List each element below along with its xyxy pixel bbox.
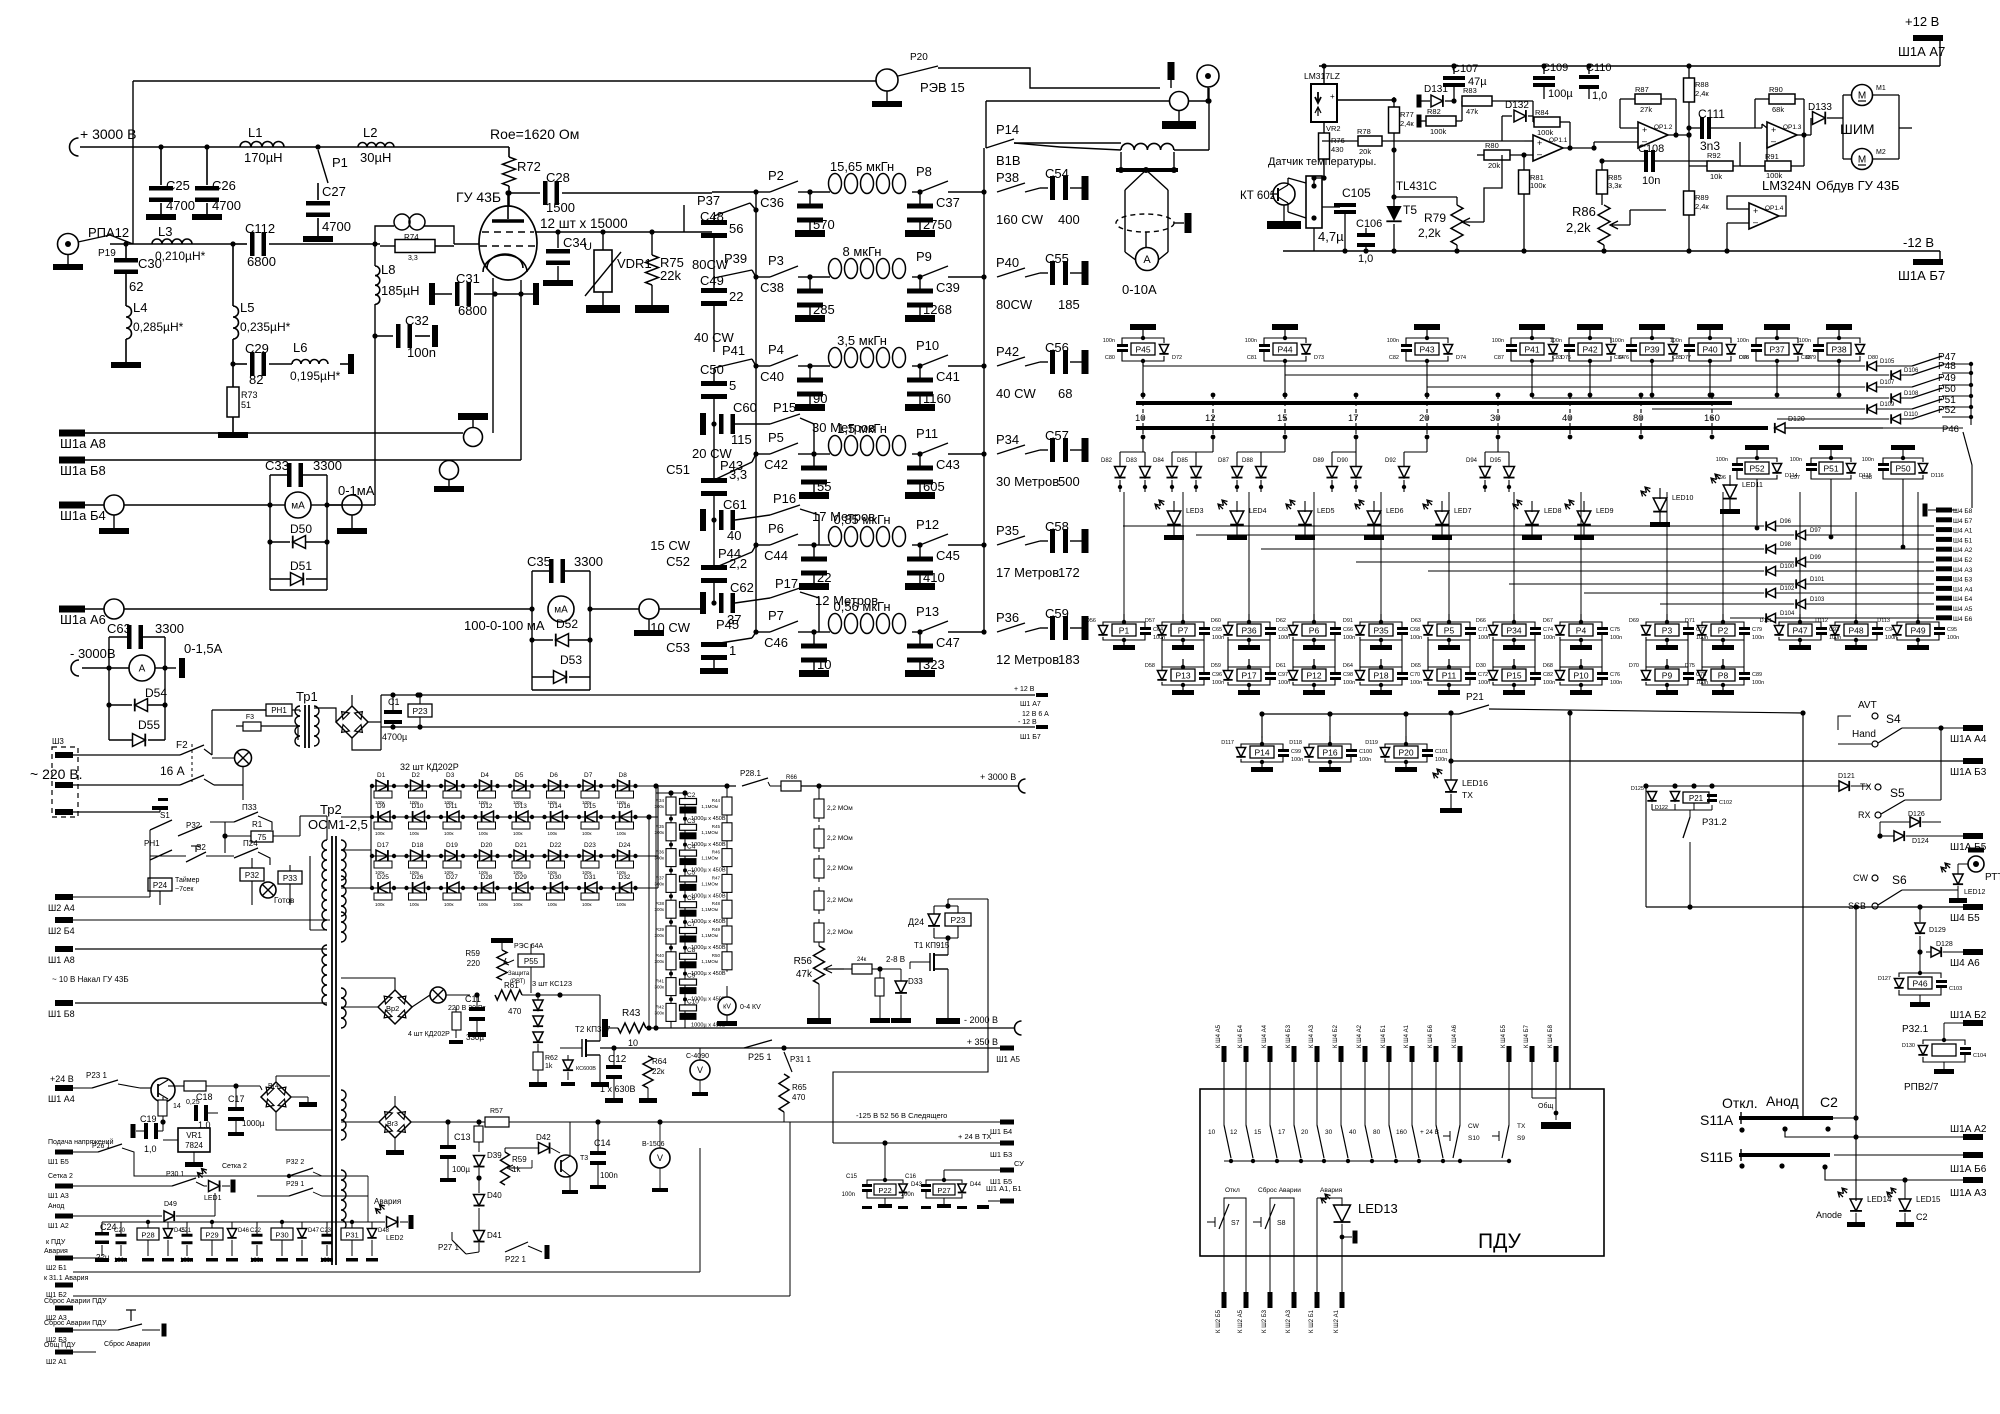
svg-text:C51: C51 (666, 462, 690, 477)
diode D47 (297, 1229, 306, 1238)
connector К Ш4 А3 (1315, 1046, 1320, 1062)
svg-text:C86: C86 (1739, 355, 1749, 361)
switch band 20 (1316, 1062, 1318, 1125)
switch S10 CW (1459, 1062, 1461, 1125)
capacitor C54 (1040, 187, 1048, 189)
svg-text:D91: D91 (1343, 618, 1353, 624)
diode D24 (618, 850, 630, 862)
svg-text:17: 17 (1348, 413, 1359, 424)
svg-text:Датчик температуры.: Датчик температуры. (1268, 156, 1376, 168)
svg-text:Ш1 А1, Б1: Ш1 А1, Б1 (986, 1184, 1022, 1193)
svg-text:C65: C65 (1212, 627, 1222, 633)
svg-text:C89: C89 (1752, 672, 1762, 678)
svg-text:C74: C74 (1543, 627, 1553, 633)
wire band row 2 (756, 276, 770, 278)
svg-text:100n: 100n (1543, 680, 1555, 686)
svg-text:P11: P11 (916, 426, 938, 441)
relay coil P23 anode (945, 913, 971, 926)
svg-text:LED7: LED7 (1454, 508, 1472, 515)
svg-text:СУ: СУ (1014, 1159, 1024, 1168)
relay coil P30 (271, 1228, 293, 1240)
svg-text:С23: С23 (320, 1228, 332, 1234)
svg-text:D105: D105 (1880, 359, 1895, 365)
svg-text:100к: 100к (1530, 181, 1547, 190)
svg-text:R72: R72 (517, 159, 541, 174)
svg-text:К Ш2 Б5: К Ш2 Б5 (1216, 1309, 1222, 1333)
svg-text:300к: 300к (655, 959, 665, 964)
svg-text:0,195µН*: 0,195µН* (290, 369, 341, 383)
svg-text:C79: C79 (1752, 627, 1762, 633)
svg-text:Авария: Авария (374, 1197, 401, 1206)
resistor equalizing D32 (616, 893, 634, 900)
relay РЭС 64А (491, 938, 513, 943)
diode D19 (445, 850, 457, 862)
svg-text:20: 20 (1301, 1129, 1309, 1136)
capacitor C47 (919, 632, 921, 646)
switch S9 TX (1508, 1062, 1510, 1125)
svg-text:20k: 20k (1359, 147, 1371, 156)
svg-text:В1В: В1В (996, 153, 1021, 168)
capacitor C46 (813, 632, 815, 646)
svg-text:D87: D87 (1218, 458, 1230, 464)
resistor bleeder R35 300к (666, 823, 676, 841)
feedthrough capacitor antenna (1170, 92, 1189, 111)
resistor R57 24k (852, 964, 872, 974)
resistor equalizing D16 (616, 822, 634, 829)
resistor equalizing D31 (581, 893, 599, 900)
svg-text:Откл: Откл (1225, 1187, 1240, 1194)
svg-text:R42: R42 (656, 1004, 665, 1009)
connector К Ш2 А1 (1340, 1292, 1345, 1308)
svg-text:ГУ 43Б: ГУ 43Б (456, 189, 501, 205)
svg-text:56: 56 (729, 221, 743, 236)
lamp Готов (260, 882, 276, 898)
relay coil P14 (1261, 736, 1263, 744)
resistor bleeder R39 300к (666, 926, 676, 944)
svg-text:C95: C95 (1947, 627, 1957, 633)
svg-text:C97: C97 (1278, 672, 1288, 678)
svg-text:100к: 100к (479, 831, 489, 836)
svg-text:-125 В 52 56 В Следящего: -125 В 52 56 В Следящего (856, 1111, 947, 1120)
svg-text:P21: P21 (1689, 794, 1704, 803)
svg-text:14: 14 (173, 1103, 181, 1110)
svg-text:ОСМ1-2,5: ОСМ1-2,5 (308, 817, 368, 832)
svg-text:470: 470 (792, 1093, 806, 1102)
svg-text:470: 470 (508, 1007, 522, 1016)
capacitor C51 (713, 424, 715, 480)
svg-text:30: 30 (1325, 1129, 1333, 1136)
svg-text:D59: D59 (1211, 663, 1221, 669)
svg-text:R59: R59 (465, 949, 480, 958)
svg-text:30: 30 (1490, 413, 1501, 424)
svg-text:P35: P35 (1373, 626, 1388, 636)
diode D84 (1171, 452, 1173, 466)
svg-text:D84: D84 (1153, 458, 1165, 464)
diode D96 (1123, 525, 1764, 527)
svg-text:300к: 300к (655, 1010, 665, 1015)
wire +12V top rail (1319, 65, 1940, 67)
svg-text:К Ш4 Б3: К Ш4 Б3 (1286, 1024, 1292, 1048)
wire band row 1 (756, 191, 770, 193)
rectifier bridge Вр3 (379, 1106, 411, 1138)
resistor R82 100k (1417, 115, 1422, 128)
svg-text:100к: 100к (444, 831, 454, 836)
svg-text:12 шт х 15000: 12 шт х 15000 (540, 216, 628, 231)
svg-text:51: 51 (241, 400, 251, 410)
diode D5 (514, 780, 526, 792)
connector Ш1а Б4 (59, 502, 85, 509)
svg-text:1000µ х 450В: 1000µ х 450В (691, 842, 726, 848)
diode D85 (1195, 452, 1197, 466)
svg-text:Ш1а Б8: Ш1а Б8 (60, 463, 106, 478)
svg-text:C44: C44 (764, 548, 788, 563)
svg-text:Ш3: Ш3 (52, 737, 64, 746)
thermal sensor block (1306, 176, 1322, 228)
svg-text:2750: 2750 (923, 217, 952, 232)
svg-text:100n: 100n (1291, 757, 1303, 763)
svg-text:100n: 100n (1550, 338, 1562, 344)
svg-text:D100: D100 (1780, 564, 1795, 570)
svg-text:100n: 100n (1492, 338, 1504, 344)
svg-text:–: – (1771, 136, 1776, 146)
svg-text:2,2k: 2,2k (1566, 220, 1591, 235)
svg-text:P45: P45 (1135, 345, 1150, 355)
svg-text:1k: 1k (545, 1063, 553, 1070)
svg-text:CW: CW (1468, 1123, 1480, 1130)
svg-text:D125: D125 (1631, 786, 1644, 792)
svg-text:C26: C26 (212, 178, 236, 193)
svg-text:Ш1 А2: Ш1 А2 (48, 1223, 69, 1230)
svg-text:P52: P52 (1938, 405, 1956, 416)
svg-text:C87: C87 (1494, 355, 1504, 361)
svg-text:R50: R50 (712, 953, 721, 958)
wire Авария long (73, 1271, 700, 1273)
svg-text:R77: R77 (1400, 110, 1414, 119)
diode D46 (227, 1229, 236, 1238)
diode D7 (583, 780, 595, 792)
svg-text:D132: D132 (1505, 100, 1529, 111)
svg-text:C75: C75 (1610, 627, 1620, 633)
diode group col 1356 (1355, 437, 1357, 452)
relay coil P1 (1123, 614, 1125, 622)
svg-text:4 шт КД202Р: 4 шт КД202Р (408, 1031, 450, 1038)
svg-text:C60: C60 (733, 400, 757, 415)
svg-text:C54: C54 (1045, 166, 1069, 181)
svg-text:185: 185 (1058, 297, 1080, 312)
op-amp OP1.3 (1767, 122, 1797, 148)
diode D16 (620, 811, 632, 823)
switch band 80 (1388, 1062, 1390, 1125)
svg-text:D70: D70 (1629, 663, 1639, 669)
svg-text:L6: L6 (293, 340, 307, 355)
svg-text:80: 80 (1373, 1129, 1381, 1136)
svg-text:C52: C52 (666, 554, 690, 569)
wires to motors (1842, 95, 1844, 118)
connector Ш4 Б2 (1936, 557, 1952, 562)
diode D15 (585, 811, 597, 823)
svg-text:1000µ х 450В: 1000µ х 450В (691, 971, 726, 977)
svg-text:2,2: 2,2 (729, 556, 747, 571)
relay coil P20 (1405, 736, 1407, 744)
svg-text:Ш1 Б5: Ш1 Б5 (48, 1159, 69, 1166)
svg-text:Ш1 А5: Ш1 А5 (996, 1055, 1020, 1064)
relay coil P29 (201, 1228, 223, 1240)
capacitor C31 (429, 283, 435, 305)
resistor R60 (452, 1012, 461, 1030)
svg-text:R73: R73 (241, 390, 258, 400)
svg-text:L5: L5 (240, 300, 254, 315)
svg-text:100µ: 100µ (1548, 88, 1573, 100)
connector Ш1А А2 (1963, 1134, 1983, 1140)
motor M2 (1852, 149, 1873, 170)
svg-text:P9: P9 (916, 249, 932, 264)
diode D30 (551, 882, 563, 894)
svg-text:16 А: 16 А (160, 764, 185, 778)
capacitor C40 (809, 366, 811, 380)
diode D22 (549, 850, 561, 862)
svg-text:C72: C72 (1478, 672, 1488, 678)
svg-text:1,1МОм: 1,1МОм (701, 881, 718, 886)
svg-text:100n: 100n (901, 1192, 914, 1198)
motor M1 (1852, 85, 1873, 106)
svg-text:P17: P17 (775, 576, 798, 591)
svg-text:D111: D111 (1760, 618, 1772, 624)
svg-text:P8: P8 (1718, 671, 1729, 681)
relay coil P4 (1580, 614, 1582, 622)
svg-text:17 Метров: 17 Метров (996, 565, 1059, 580)
resistor R78 20k (1322, 140, 1359, 142)
wire protection bus (102, 1221, 385, 1223)
svg-text:LM324N: LM324N (1762, 178, 1811, 193)
svg-text:–: – (1753, 217, 1758, 227)
svg-text:P36: P36 (996, 610, 1019, 625)
svg-text:R64: R64 (652, 1057, 667, 1066)
ground mains (73, 811, 160, 813)
diode D17 (376, 850, 388, 862)
svg-text:P52: P52 (1749, 464, 1764, 474)
svg-text:80: 80 (1633, 413, 1644, 424)
op-amp OP1.1 (1533, 135, 1563, 161)
svg-text:P16: P16 (773, 491, 796, 506)
svg-text:Ш4 А6: Ш4 А6 (1950, 958, 1980, 969)
inductor L6 (269, 363, 292, 365)
connector Ш1А А3 (1963, 1177, 1983, 1183)
svg-text:D80: D80 (1868, 355, 1878, 361)
resistor R84 100k (1534, 117, 1560, 127)
ground bottom-left (1283, 205, 1285, 221)
svg-text:C13: C13 (454, 1132, 471, 1142)
relay coil P5 (1448, 614, 1450, 622)
svg-text:LED1: LED1 (204, 1195, 222, 1202)
svg-text:100n: 100n (1799, 338, 1811, 344)
svg-text:D62: D62 (1276, 618, 1286, 624)
relay coil P47 (1799, 614, 1801, 622)
wire 24V rail top (381, 694, 1035, 696)
svg-text:РЭС 64А: РЭС 64А (514, 943, 543, 950)
svg-text:115: 115 (731, 432, 752, 447)
svg-text:P29: P29 (205, 1231, 218, 1240)
capacitor C45 (919, 545, 921, 559)
capacitor C42 (813, 454, 815, 468)
svg-text:P11: P11 (1442, 671, 1457, 681)
relay coil P13 (1182, 659, 1184, 667)
svg-text:C46: C46 (764, 635, 788, 650)
svg-text:К Ш4 А6: К Ш4 А6 (1452, 1024, 1458, 1048)
wire band row 3 (756, 365, 770, 367)
svg-text:D89: D89 (1313, 458, 1325, 464)
svg-text:0,285µН*: 0,285µН* (133, 320, 184, 334)
svg-text:F2: F2 (176, 740, 188, 751)
svg-text:P5: P5 (1444, 626, 1455, 636)
resistor R83 47k (1462, 96, 1492, 106)
svg-text:2,4к: 2,4к (1695, 89, 1709, 98)
svg-text:D71: D71 (1685, 618, 1695, 624)
diode D28 (482, 882, 494, 894)
wire Ш1А Б3 (1451, 760, 1964, 762)
svg-text:D117: D117 (1221, 740, 1234, 746)
connector К Ш2 Б1 (1315, 1292, 1320, 1308)
resistor equalizing D8 (616, 791, 634, 798)
svg-text:C35: C35 (527, 554, 551, 569)
svg-text:P48: P48 (1848, 626, 1863, 636)
svg-text:P50: P50 (1895, 464, 1910, 474)
svg-text:D119: D119 (1365, 740, 1378, 746)
svg-text:Ш2 А1: Ш2 А1 (46, 1359, 67, 1366)
connector Ш1а А6 (59, 606, 85, 613)
svg-text:CW: CW (1853, 873, 1868, 883)
svg-text:100k: 100k (1430, 127, 1447, 136)
svg-text:47k: 47k (1466, 107, 1478, 116)
bus right filter (983, 148, 985, 632)
varistor VDR1 (602, 232, 604, 250)
svg-text:К Ш4 Б1: К Ш4 Б1 (1381, 1024, 1387, 1048)
diode D11 (447, 811, 459, 823)
connector К Ш4 А6 (1458, 1046, 1463, 1062)
svg-text:кV: кV (723, 1003, 731, 1010)
diode group col 1213 (1212, 437, 1214, 452)
svg-text:1 х 630В: 1 х 630В (600, 1084, 636, 1094)
resistor R52 2.2МОм (814, 891, 824, 910)
svg-text:C40: C40 (760, 369, 784, 384)
svg-text:1268: 1268 (923, 302, 952, 317)
LED14 (1850, 1199, 1862, 1211)
svg-text:P23: P23 (412, 706, 427, 716)
wire feed P49 (1427, 386, 1865, 388)
svg-text:1,1МОм: 1,1МОм (701, 933, 718, 938)
resistor equalizing D10 (409, 822, 427, 829)
svg-text:100к: 100к (548, 902, 558, 907)
svg-text:P12: P12 (1306, 671, 1321, 681)
relay coil P10 (1580, 659, 1582, 667)
capacitor C62 (700, 592, 706, 614)
svg-text:R38: R38 (656, 901, 665, 906)
svg-text:D56: D56 (1086, 618, 1096, 624)
svg-text:1,0: 1,0 (144, 1144, 157, 1154)
svg-text:V: V (697, 1065, 703, 1075)
svg-text:1500: 1500 (546, 200, 575, 215)
svg-text:С21: С21 (180, 1228, 192, 1234)
svg-text:D25: D25 (377, 874, 389, 881)
svg-text:LED13: LED13 (1358, 1201, 1398, 1216)
svg-text:-12 В: -12 В (1903, 235, 1934, 250)
svg-text:Ш1а А8: Ш1а А8 (60, 436, 106, 451)
svg-text:C61: C61 (723, 497, 747, 512)
relay contact P11 (917, 451, 922, 456)
svg-text:P23: P23 (950, 915, 965, 925)
capacitor C60 (700, 413, 706, 435)
switch band + 24 В (1435, 1062, 1437, 1125)
svg-text:+ 24 В ТХ: + 24 В ТХ (958, 1132, 992, 1141)
resistor R57 (485, 1117, 509, 1127)
svg-text:D55: D55 (138, 718, 160, 732)
grounds regulator (818, 984, 820, 1018)
svg-text:R83: R83 (1463, 86, 1477, 95)
resistor equalizing D22 (547, 861, 565, 868)
diode D27 (447, 882, 459, 894)
svg-text:Br4: Br4 (268, 1083, 279, 1090)
svg-text:P30 1: P30 1 (166, 1171, 184, 1178)
svg-text:605: 605 (923, 479, 945, 494)
svg-text:D40: D40 (487, 1191, 502, 1200)
svg-text:P6: P6 (1309, 626, 1320, 636)
svg-text:P7: P7 (768, 608, 784, 623)
svg-text:D28: D28 (481, 874, 493, 881)
svg-text:В-1506: В-1506 (642, 1141, 665, 1148)
svg-text:D98: D98 (1780, 542, 1792, 548)
svg-text:C45: C45 (936, 548, 960, 563)
wire +350V (600, 1047, 1000, 1049)
svg-text:к ПДУ: к ПДУ (46, 1239, 66, 1246)
diode D18 (411, 850, 423, 862)
svg-text:P55: P55 (524, 957, 539, 966)
svg-text:R45: R45 (712, 824, 721, 829)
connector Ш4 А6 (1963, 949, 1983, 955)
svg-text:Ш4 А2: Ш4 А2 (1953, 547, 1973, 554)
svg-text:LED3: LED3 (1186, 508, 1204, 515)
svg-text:300к: 300к (655, 830, 665, 835)
diode D103 (1660, 603, 1794, 605)
capacitor C39 (919, 277, 921, 291)
svg-text:OP1.4: OP1.4 (1765, 205, 1784, 212)
capacitor C36 (809, 192, 811, 206)
relay coil P11 (1448, 659, 1450, 667)
wire feed P47 (1143, 365, 1865, 367)
svg-text:D113: D113 (1877, 618, 1890, 624)
svg-text:+ 12 В: + 12 В (1014, 686, 1035, 693)
svg-text:LED6: LED6 (1386, 508, 1404, 515)
svg-text:P7: P7 (1178, 626, 1189, 636)
resistor R88 2.4k (1684, 78, 1695, 102)
svg-text:2,2k: 2,2k (1418, 226, 1442, 240)
svg-text:P49: P49 (1910, 626, 1925, 636)
svg-text:D20: D20 (481, 842, 493, 849)
svg-text:OP1.3: OP1.3 (1783, 124, 1802, 131)
resistor equalizing D30 (547, 893, 565, 900)
svg-text:P42: P42 (996, 344, 1019, 359)
wire band row 5 (756, 544, 770, 546)
svg-text:100n: 100n (1435, 757, 1447, 763)
svg-text:D39: D39 (487, 1151, 502, 1160)
svg-text:C104: C104 (1973, 1053, 1986, 1059)
svg-text:P40: P40 (996, 255, 1019, 270)
svg-text:D31: D31 (584, 874, 596, 881)
svg-text:185µН: 185µН (381, 283, 420, 298)
svg-text:D58: D58 (1145, 663, 1155, 669)
svg-text:КТ 602: КТ 602 (1240, 190, 1276, 202)
svg-text:ТХ: ТХ (1517, 1123, 1526, 1130)
svg-text:17: 17 (1278, 1129, 1286, 1136)
coax antenna connector (1197, 65, 1219, 87)
